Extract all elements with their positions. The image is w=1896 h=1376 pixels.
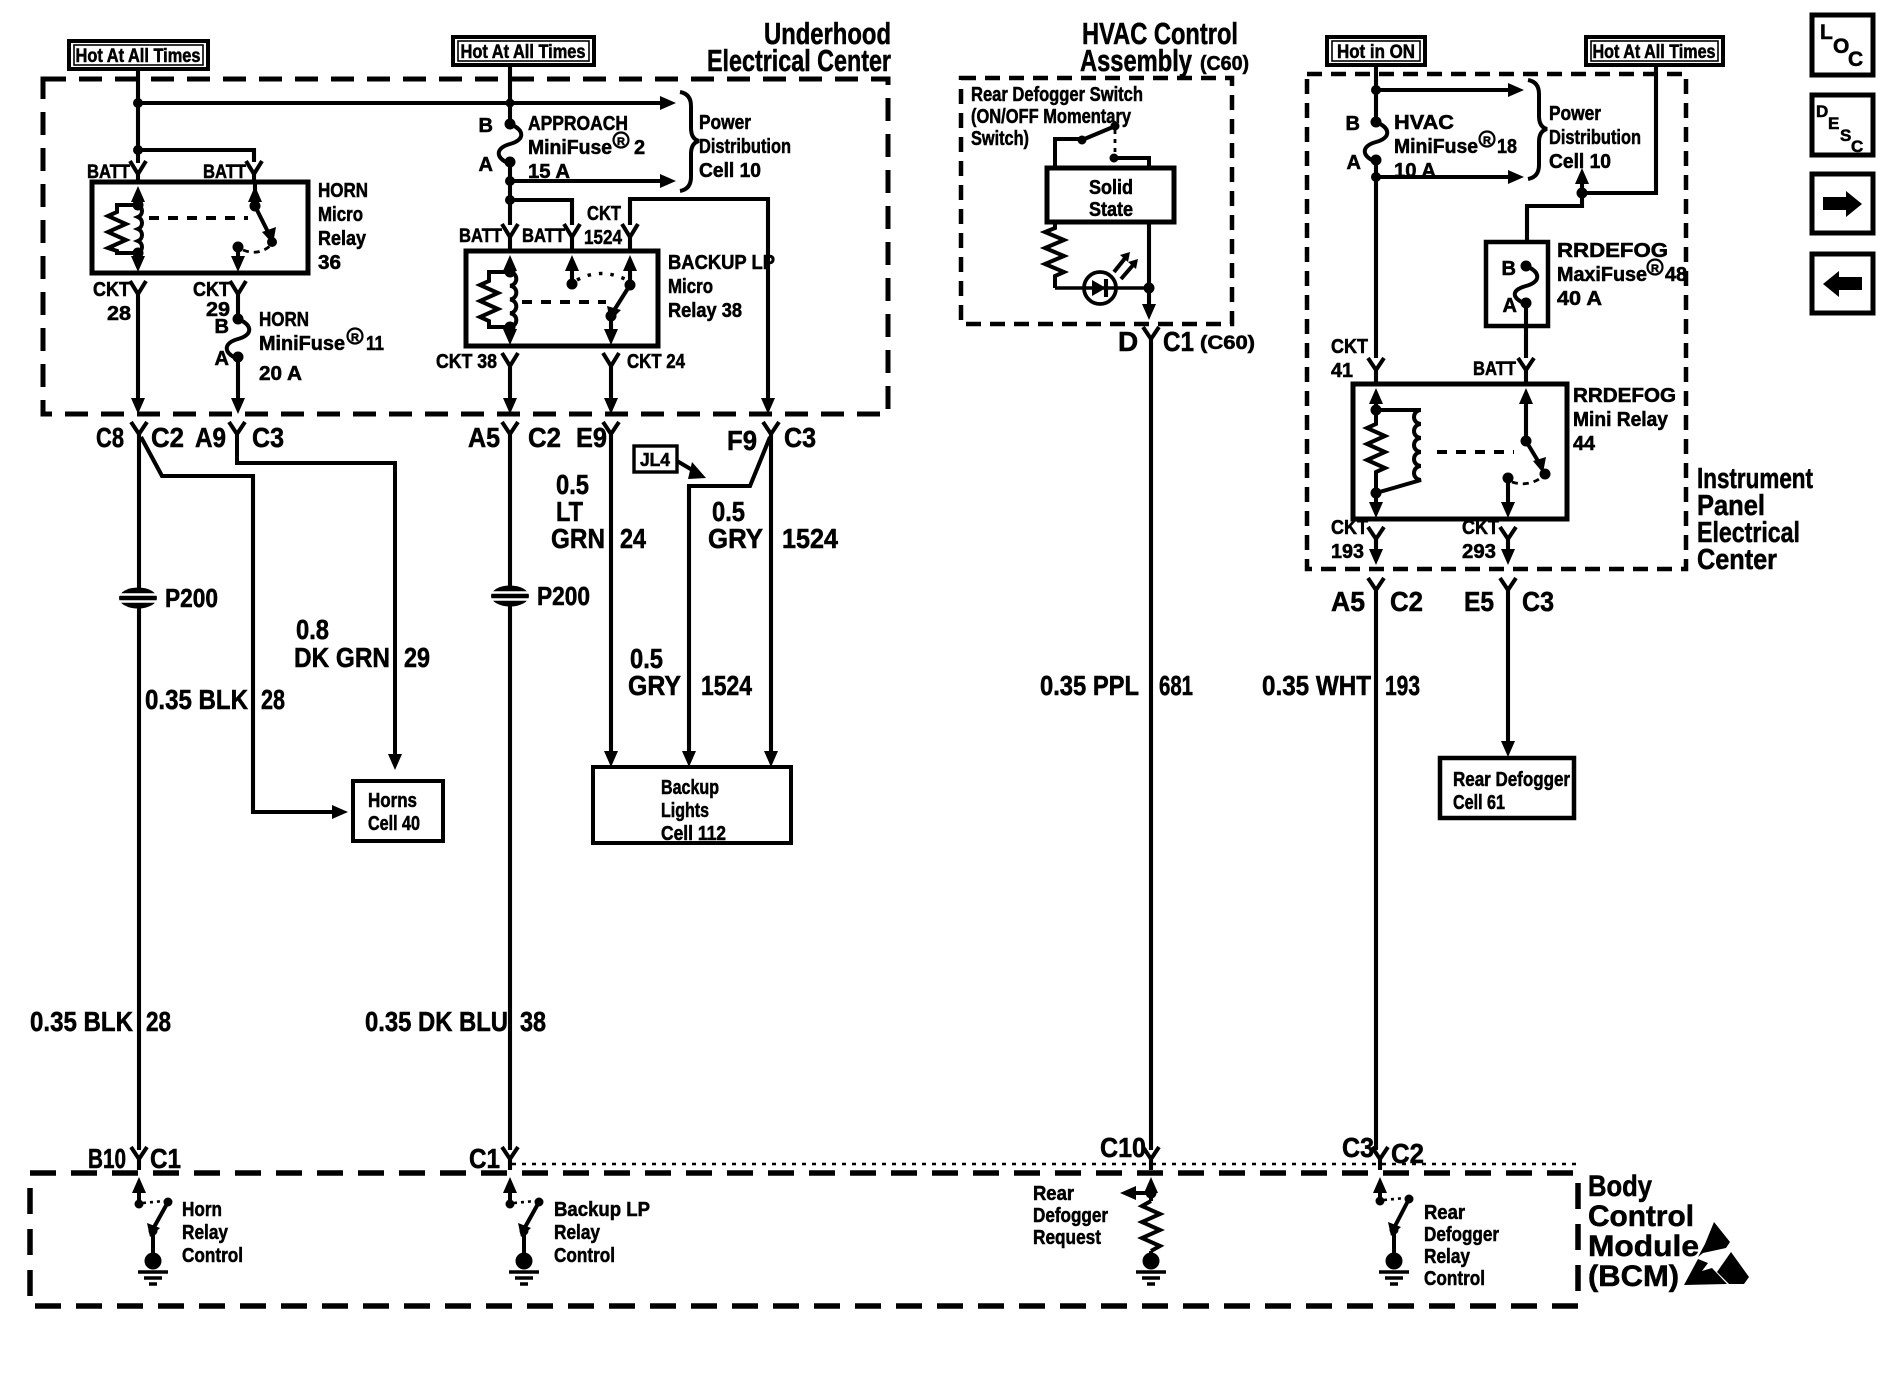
wire CKT 1524 from relay to F9 drop xyxy=(630,199,768,402)
svg-text:JL4: JL4 xyxy=(640,450,670,470)
pin CKT 293 below relay xyxy=(1500,527,1516,539)
pin arrow into relay contact (middle) xyxy=(565,255,579,271)
svg-text:A5: A5 xyxy=(468,422,500,453)
connector C3/C2 (BCM defog relay) xyxy=(1372,1147,1388,1159)
svg-text:MiniFuse: MiniFuse xyxy=(1394,136,1478,158)
fuse F11 HORN MiniFuse 20A xyxy=(215,314,250,371)
relay K44 contact travel (dashed arc) xyxy=(1512,474,1546,484)
wire 0.35 BLK 28 main drop (C8 to BCM B10) xyxy=(137,434,141,1150)
wire to ground xyxy=(522,1231,526,1253)
wire: Hot in ON feed down xyxy=(1374,65,1378,122)
wire CKT 293 to E5 connector xyxy=(1506,539,1510,553)
node: switch arm end xyxy=(606,311,617,322)
svg-text:HORN: HORN xyxy=(259,309,309,331)
BCM connector face dotted line xyxy=(512,1163,1578,1166)
svg-text:APPROACH: APPROACH xyxy=(528,113,628,135)
svg-text:Solid: Solid xyxy=(1089,177,1133,199)
svg-text:MiniFuse: MiniFuse xyxy=(259,333,345,355)
switch arm xyxy=(524,1202,539,1229)
label Instrument Panel Electrical Center xyxy=(1697,463,1813,576)
BCM defog request input: pin arrow xyxy=(1144,1177,1158,1193)
svg-text:C1: C1 xyxy=(1163,326,1194,357)
ground (defog relay control) xyxy=(1379,1253,1409,1285)
switch arm xyxy=(1394,1199,1409,1228)
connector A5/C2 (IP EC) xyxy=(1368,578,1384,590)
svg-text:Distribution: Distribution xyxy=(699,136,791,158)
svg-text:Cell 112: Cell 112 xyxy=(661,823,726,845)
svg-text:0.35 PPL: 0.35 PPL xyxy=(1040,670,1139,701)
relay K36 coil winding xyxy=(138,205,142,253)
wire into BCM xyxy=(1378,1159,1382,1170)
svg-text:C3: C3 xyxy=(252,422,284,453)
pin CKT 38 below relay xyxy=(502,353,518,366)
connector C10 (BCM defog request) xyxy=(1143,1147,1159,1159)
icon DESC xyxy=(1812,95,1873,156)
wire MaxiFuse output to BATT pin xyxy=(1524,303,1528,358)
relay K38 coil winding xyxy=(510,272,516,327)
wire: feed to Power Distribution arrow (lower) xyxy=(1376,175,1508,179)
svg-text:BATT: BATT xyxy=(1473,359,1516,380)
fuse F48 element xyxy=(1502,258,1538,317)
svg-text:R: R xyxy=(1651,263,1659,275)
ground (backup lp relay control) xyxy=(509,1253,539,1285)
node: junction at pin D xyxy=(1144,283,1155,294)
pin arrow into relay switch (right) xyxy=(623,255,637,271)
label BACKUP LP Micro Relay 38 xyxy=(668,252,775,322)
svg-text:D: D xyxy=(1816,102,1828,121)
svg-text:41: 41 xyxy=(1331,360,1353,382)
module Solid State box xyxy=(1047,168,1174,222)
svg-text:Micro: Micro xyxy=(668,276,713,298)
svg-text:(C60): (C60) xyxy=(1200,333,1255,354)
svg-text:CKT: CKT xyxy=(587,203,621,225)
svg-text:L: L xyxy=(1820,21,1833,44)
splice P200 (middle) xyxy=(491,581,590,611)
relay K44 RRDEFOG Mini Relay box xyxy=(1353,384,1567,519)
connector pin CKT 41 xyxy=(1368,358,1384,370)
svg-text:GRY: GRY xyxy=(628,670,681,701)
arrow into Horns box xyxy=(332,805,348,819)
label box: Hot At All Times (middle) xyxy=(453,37,594,65)
svg-text:Rear Defogger: Rear Defogger xyxy=(1453,769,1570,791)
wire A9 branch to horns (0.8 DK GRN 29) xyxy=(237,434,395,758)
relay K44 resistor (on main line) xyxy=(1367,410,1385,493)
svg-text:D: D xyxy=(1118,326,1138,357)
svg-text:1524: 1524 xyxy=(701,670,752,701)
node: junction to Power Distribution (lower) xyxy=(1371,172,1381,182)
label box: Hot At All Times (left) xyxy=(69,41,208,69)
svg-text:0.35 BLK: 0.35 BLK xyxy=(30,1006,133,1037)
label Rear Defogger Request xyxy=(1033,1183,1108,1249)
svg-text:(C60): (C60) xyxy=(1200,53,1249,75)
svg-text:BACKUP LP: BACKUP LP xyxy=(668,252,775,274)
svg-text:B: B xyxy=(1346,113,1360,135)
svg-text:2: 2 xyxy=(634,137,645,159)
driver switch linkage (dotted) xyxy=(143,1201,164,1203)
svg-text:State: State xyxy=(1089,199,1133,221)
node: arm pivot xyxy=(1390,1226,1399,1235)
svg-text:Cell 10: Cell 10 xyxy=(1549,151,1611,173)
connector pin D / C1 (C60) xyxy=(1143,327,1159,339)
svg-text:Rear Defogger Switch: Rear Defogger Switch xyxy=(971,84,1143,106)
svg-text:Center: Center xyxy=(1697,544,1777,576)
wire CKT 38 down to A5 connector xyxy=(508,366,512,402)
node: arm pivot xyxy=(149,1227,158,1236)
resistor (switch illumination) xyxy=(1045,222,1064,288)
HVAC control assembly dashed boundary xyxy=(961,78,1232,324)
svg-text:40 A: 40 A xyxy=(1557,288,1602,310)
Rear Defogger Cell 61 box xyxy=(1440,758,1574,818)
option tag JL4 xyxy=(634,446,706,479)
switch arm xyxy=(153,1202,168,1229)
svg-text:BATT: BATT xyxy=(522,226,565,247)
wire: feed across to Power Distribution arrow xyxy=(138,101,660,105)
wire to ground xyxy=(151,1231,155,1253)
brace Power Distribution xyxy=(680,92,699,191)
connector E9 xyxy=(603,422,619,434)
relay K36 linkage (dashed) xyxy=(149,216,248,220)
splice P200 (left) xyxy=(119,583,218,613)
svg-text:Power: Power xyxy=(699,112,751,134)
fuse F2 APPROACH MiniFuse 15A xyxy=(479,115,522,176)
svg-text:C8: C8 xyxy=(96,422,124,453)
svg-text:CKT: CKT xyxy=(1331,336,1368,358)
wire CKT 28 down to C2 connector xyxy=(136,294,140,402)
svg-text:C: C xyxy=(1851,137,1863,156)
wire E5 drop to Rear Defogger xyxy=(1506,590,1510,745)
svg-text:A: A xyxy=(215,348,229,370)
svg-text:Relay 38: Relay 38 xyxy=(668,300,742,322)
relay K38 BACKUP LP Micro Relay box xyxy=(466,251,658,346)
svg-text:B: B xyxy=(479,115,493,137)
svg-text:C3: C3 xyxy=(1522,586,1554,617)
connector pin BATT (relay 44) xyxy=(1518,358,1534,370)
fuse F18 HVAC MiniFuse 10A xyxy=(1346,113,1388,174)
wire: hot feed down from left Hot At All Times xyxy=(136,69,140,163)
svg-text:28: 28 xyxy=(107,303,131,325)
relay K44 parallel coil winding xyxy=(1376,410,1421,493)
relay K44 linkage (dashed) xyxy=(1437,450,1514,454)
svg-text:Hot At All Times: Hot At All Times xyxy=(461,42,586,63)
node: driver pin xyxy=(1376,1197,1385,1206)
svg-text:MaxiFuse: MaxiFuse xyxy=(1557,264,1647,286)
wire into BCM xyxy=(508,1159,512,1170)
node: coil bottom xyxy=(505,322,516,333)
connector pin BATT (backup relay coil) xyxy=(502,224,518,237)
svg-text:Power: Power xyxy=(1549,103,1601,125)
svg-text:C2: C2 xyxy=(151,422,184,453)
svg-text:Horn: Horn xyxy=(182,1199,222,1221)
wire: feed to Power Distribution arrow (top) xyxy=(1376,88,1508,92)
svg-text:Cell 40: Cell 40 xyxy=(368,813,420,835)
svg-text:E9: E9 xyxy=(576,422,607,453)
pin arrow out of relay switch xyxy=(236,247,240,260)
svg-text:Control: Control xyxy=(182,1245,243,1267)
node: coil bottom xyxy=(1371,488,1382,499)
svg-text:RRDEFOG: RRDEFOG xyxy=(1557,240,1668,262)
svg-text:Hot At All Times: Hot At All Times xyxy=(76,46,201,67)
svg-text:Rear: Rear xyxy=(1424,1202,1465,1224)
svg-text:B: B xyxy=(215,316,229,338)
label HORN MiniFuse 11 20 A xyxy=(259,309,384,385)
svg-text:38: 38 xyxy=(520,1006,546,1037)
ground (defog request) xyxy=(1136,1251,1166,1284)
svg-text:Micro: Micro xyxy=(318,204,363,226)
svg-text:Electrical Center: Electrical Center xyxy=(707,43,891,78)
svg-text:48: 48 xyxy=(1665,264,1687,286)
connector pin CKT 1524 (backup relay switch) xyxy=(622,224,638,237)
title Underhood Electrical Center xyxy=(707,16,891,78)
node: switch contact xyxy=(1405,1195,1414,1204)
svg-text:C2: C2 xyxy=(528,422,561,453)
BCM backup relay driver: pin arrow xyxy=(503,1177,517,1193)
label 0.5 GRY 1524 (upper) xyxy=(708,496,838,554)
svg-text:681: 681 xyxy=(1159,670,1193,701)
svg-text:1524: 1524 xyxy=(782,523,838,554)
title HVAC Control Assembly (C60) xyxy=(1080,16,1249,78)
svg-text:B10: B10 xyxy=(88,1143,126,1174)
title Body Control Module (BCM) xyxy=(1588,1170,1699,1293)
svg-text:A: A xyxy=(1503,295,1517,317)
node: junction to Power Distribution (lower) xyxy=(505,176,515,186)
label HVAC MiniFuse 18 10 A xyxy=(1394,112,1517,182)
svg-text:HORN: HORN xyxy=(318,180,368,202)
label Rear Defogger Switch (ON/OFF Momentary Switch) xyxy=(971,84,1143,150)
fuse F48 RRDEFOG MaxiFuse box xyxy=(1486,242,1548,326)
node: driver pin xyxy=(135,1200,144,1209)
label RRDEFOG MaxiFuse 48 40 A xyxy=(1557,240,1687,310)
connector E5/C3 (IP EC) xyxy=(1500,578,1516,590)
connector F9/C3 xyxy=(763,422,779,434)
svg-text:C1: C1 xyxy=(469,1143,500,1174)
brace Power Distribution (IP) xyxy=(1528,80,1547,179)
svg-text:A5: A5 xyxy=(1331,586,1365,617)
ground (horn relay control) xyxy=(138,1253,168,1285)
svg-text:A: A xyxy=(1347,152,1361,174)
pin arrow into relay switch xyxy=(1519,388,1533,404)
label APPROACH MiniFuse 2 15 A xyxy=(528,113,645,183)
node: driver pin xyxy=(506,1200,515,1209)
node: coil top xyxy=(1371,405,1382,416)
icon LOC xyxy=(1812,15,1873,75)
relay K38 switch pivot xyxy=(625,280,636,291)
svg-text:C10: C10 xyxy=(1100,1132,1146,1163)
pin arrow into relay coil xyxy=(1369,388,1383,404)
svg-text:Relay: Relay xyxy=(318,228,367,250)
connector pin BATT (horn relay coil) xyxy=(130,161,146,174)
node: switch contact xyxy=(164,1198,173,1207)
relay K36 switch pivot xyxy=(250,201,261,212)
arrow to logic (left) xyxy=(1134,1191,1151,1195)
svg-text:R: R xyxy=(1483,135,1491,147)
svg-text:Lights: Lights xyxy=(661,800,709,822)
svg-text:Relay: Relay xyxy=(182,1222,229,1244)
svg-text:Relay: Relay xyxy=(1424,1246,1471,1268)
wire branch C8 to horns (0.35 BLK 28) xyxy=(141,437,332,812)
label HORN Micro Relay 36 xyxy=(318,180,368,274)
arrow up to Power Distribution xyxy=(1580,182,1584,193)
label box: Hot At All Times (right) xyxy=(1586,37,1723,65)
arrow into Power Distribution (top) xyxy=(660,96,676,110)
wire 0.5 LT GRN 24 drop (E9 to backup lights) xyxy=(609,434,613,755)
svg-text:Module: Module xyxy=(1588,1230,1699,1263)
pin arrow into relay coil xyxy=(131,186,145,202)
connector C8/C2 xyxy=(131,422,147,434)
wire Solid State output down xyxy=(1147,222,1151,306)
node: coil top xyxy=(133,200,144,211)
arrow down into Horns box xyxy=(388,754,402,770)
label 0.5 GRY 1524 (lower) xyxy=(628,643,752,701)
svg-text:0.8: 0.8 xyxy=(296,614,329,645)
svg-text:Backup LP: Backup LP xyxy=(554,1199,650,1221)
wire: jog down to MaxiFuse xyxy=(1527,193,1582,242)
svg-text:28: 28 xyxy=(146,1006,171,1037)
svg-text:Rear: Rear xyxy=(1033,1183,1074,1205)
node: coil bottom xyxy=(133,248,144,259)
node: junction B+ distribution xyxy=(133,98,143,108)
wire 0.5 GRY 1524 drop (F9 straight) xyxy=(769,434,773,755)
BCM horn relay driver: pin arrow xyxy=(132,1177,146,1193)
wire: fuse 18 output xyxy=(1374,160,1378,358)
svg-text:E5: E5 xyxy=(1464,586,1494,617)
pin CKT 193 below relay xyxy=(1368,527,1384,539)
svg-text:R: R xyxy=(617,136,625,148)
relay K44 switch arm xyxy=(1526,441,1541,466)
wire: hot feed down from middle Hot At All Times xyxy=(508,65,512,124)
svg-text:0.35 BLK: 0.35 BLK xyxy=(145,684,248,715)
node: junction to BATT terminals xyxy=(133,145,143,155)
pin arrow into relay coil xyxy=(503,255,517,271)
pin arrow out of relay coil xyxy=(508,327,512,333)
svg-text:CKT 38: CKT 38 xyxy=(436,351,497,373)
wire: branch to right BATT terminal xyxy=(138,150,254,162)
relay K36 contact travel (dashed arc) xyxy=(243,246,270,252)
label RRDEFOG Mini Relay 44 xyxy=(1573,385,1676,455)
svg-text:B: B xyxy=(1502,258,1516,280)
svg-text:CKT: CKT xyxy=(193,279,230,301)
svg-text:P200: P200 xyxy=(165,583,218,613)
node: input junction xyxy=(1146,1188,1157,1199)
node: switch contact xyxy=(1503,473,1514,484)
pin CKT 28 below relay xyxy=(130,281,146,294)
icon back arrow xyxy=(1812,254,1873,313)
svg-text:Assembly: Assembly xyxy=(1080,43,1193,78)
wire: feed down to left BATT terminal xyxy=(508,200,512,225)
svg-text:29: 29 xyxy=(404,642,430,673)
pin CKT 29 below relay xyxy=(230,281,246,294)
svg-text:20 A: 20 A xyxy=(259,363,302,385)
svg-text:28: 28 xyxy=(261,684,285,715)
wire 0.35 DK BLU 38 drop (A5 to BCM C1) xyxy=(508,434,512,1150)
svg-text:Hot in ON: Hot in ON xyxy=(1337,42,1415,63)
svg-text:293: 293 xyxy=(1462,541,1496,563)
svg-text:Hot At All Times: Hot At All Times xyxy=(1593,42,1716,63)
connector A9/C3 xyxy=(229,422,245,434)
relay K38 linkage (dashed) xyxy=(522,300,606,304)
svg-text:F9: F9 xyxy=(727,425,757,456)
svg-text:Defogger: Defogger xyxy=(1033,1205,1108,1227)
wire into BCM xyxy=(1149,1159,1153,1170)
pin arrow out of relay switch xyxy=(1506,478,1510,506)
svg-text:DK GRN: DK GRN xyxy=(294,642,390,673)
label Horn Relay Control xyxy=(182,1199,243,1267)
svg-text:11: 11 xyxy=(366,333,384,355)
svg-text:193: 193 xyxy=(1331,541,1364,563)
node: switch contact xyxy=(535,1198,544,1207)
svg-text:(ON/OFF Momentary: (ON/OFF Momentary xyxy=(971,106,1132,128)
relay K36 parallel resistor xyxy=(108,205,138,253)
wire: feed to Power Distribution arrow (lower) xyxy=(510,179,660,183)
node: fixed contact xyxy=(567,279,578,290)
svg-text:C2: C2 xyxy=(1390,586,1423,617)
svg-text:Control: Control xyxy=(554,1245,615,1267)
svg-text:Control: Control xyxy=(1588,1200,1694,1233)
node: switch contact xyxy=(233,242,244,253)
svg-text:A: A xyxy=(479,154,493,176)
ESD sensitive device symbol xyxy=(1684,1222,1749,1285)
svg-text:Defogger: Defogger xyxy=(1424,1224,1499,1246)
svg-text:E: E xyxy=(1828,114,1839,133)
svg-text:Mini Relay: Mini Relay xyxy=(1573,409,1669,431)
relay K44 switch pivot xyxy=(1521,436,1532,447)
svg-text:Request: Request xyxy=(1033,1227,1101,1249)
svg-text:MiniFuse: MiniFuse xyxy=(528,137,612,159)
BCM defog relay driver: pin arrow xyxy=(1373,1177,1387,1193)
arrow into Power Distribution (lower) xyxy=(660,174,676,188)
node: coil top xyxy=(505,267,516,278)
svg-text:BATT: BATT xyxy=(459,226,502,247)
svg-text:C1: C1 xyxy=(150,1143,181,1174)
icon forward arrow xyxy=(1812,174,1873,233)
svg-text:Switch): Switch) xyxy=(971,128,1029,150)
relay K36 switch arm xyxy=(255,206,270,236)
svg-text:Cell 10: Cell 10 xyxy=(699,160,761,182)
node: crossing junction xyxy=(506,99,515,108)
wire 0.5 GRY 1524 jog branch (F9 via JL4) xyxy=(689,437,770,755)
relay K36 HORN Micro Relay box xyxy=(92,182,308,273)
svg-text:Relay: Relay xyxy=(554,1222,601,1244)
label 0.8 DK GRN 29 xyxy=(294,614,430,673)
switch S1 rear defogger momentary switch xyxy=(1055,122,1149,169)
svg-text:Control: Control xyxy=(1424,1268,1485,1290)
svg-text:C2: C2 xyxy=(1391,1138,1424,1169)
svg-text:(BCM): (BCM) xyxy=(1588,1260,1679,1293)
wire into BCM xyxy=(137,1159,141,1170)
wire CKT 193 to A5 connector xyxy=(1374,539,1378,553)
pull resistor xyxy=(1142,1201,1160,1251)
svg-text:CKT: CKT xyxy=(1331,517,1368,539)
Horns Cell 40 box xyxy=(353,781,443,841)
svg-text:C3: C3 xyxy=(784,422,816,453)
connector pin BATT (horn relay switch) xyxy=(246,161,262,174)
wire 0.35 WHT 193 drop (A5 to BCM C3) xyxy=(1374,590,1378,1150)
LED indicator xyxy=(1055,252,1149,304)
instrument panel electrical center dashed boundary xyxy=(1307,74,1686,569)
node: junction to Power Distribution xyxy=(1371,85,1381,95)
svg-text:1524: 1524 xyxy=(584,227,623,249)
node: switch arm end xyxy=(267,237,277,247)
svg-text:0.35 WHT: 0.35 WHT xyxy=(1262,670,1371,701)
wire CKT 29 down to fuse 11 xyxy=(236,294,240,319)
svg-text:193: 193 xyxy=(1385,670,1420,701)
svg-text:R: R xyxy=(351,332,359,344)
svg-text:P200: P200 xyxy=(537,581,590,611)
svg-text:A9: A9 xyxy=(195,422,226,453)
pin CKT 24 below relay xyxy=(603,353,619,366)
svg-text:Cell 61: Cell 61 xyxy=(1453,792,1505,814)
wire: fuse 2 output xyxy=(508,162,512,200)
label Power Distribution Cell 10 (IP) xyxy=(1549,103,1641,173)
